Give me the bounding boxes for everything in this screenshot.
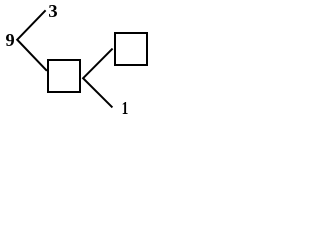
binary tree diagram bbox=[0, 0, 155, 118]
node 1 label bbox=[123, 102, 128, 114]
subtree box A bbox=[48, 60, 80, 92]
wire edges from node 9 branch point to node 3 and to subtree box A bbox=[17, 10, 47, 71]
node 9 label bbox=[6, 34, 14, 46]
wire edges from box A branch point to subtree box B and to node 1 bbox=[83, 49, 113, 108]
subtree box B bbox=[115, 33, 147, 65]
node 3 label bbox=[49, 5, 57, 17]
